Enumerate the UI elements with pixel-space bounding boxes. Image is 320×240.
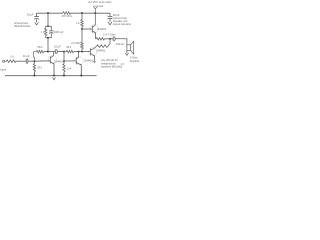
wire base node F jog up to R5 <box>34 52 37 62</box>
wire rail corner down to C3 <box>35 13 38 17</box>
label note use 300 uF line 2 <box>101 61 116 65</box>
wire node H to R6 <box>64 50 66 53</box>
wire node H down to node J <box>62 52 65 61</box>
node A junction dot on rail <box>47 12 49 14</box>
resistor R9 2.2 Mohm feedback <box>81 42 84 48</box>
label Input <box>0 67 6 71</box>
resistor R10 2.4-7 Ohm emitter <box>96 38 104 41</box>
wire right branch top of C4 <box>48 26 51 31</box>
wire C5 to speaker <box>115 39 127 45</box>
transistor Q4 emitter lead with arrow <box>90 53 94 56</box>
label R10 value 2.4-7 Ohm <box>103 32 116 36</box>
label C6 plus polarity <box>107 15 109 17</box>
transistor Q3 collector lead <box>76 52 78 59</box>
label R7 value 10 k <box>66 66 72 70</box>
resistor R4 33 k base to ground <box>33 63 35 71</box>
transistor Q1 emitter lead with arrow <box>50 62 54 64</box>
label R9 value 2.2 Mohm <box>71 41 79 45</box>
node J junction dot <box>63 60 65 62</box>
label C4 value 1000 uF <box>54 30 64 34</box>
capacitor C1 10 uF input coupling <box>26 59 28 64</box>
label note use 300 uF line 3 <box>101 65 122 69</box>
node Q ground dot Q1 emitter <box>53 75 55 77</box>
transistor Q2 base bar <box>91 26 94 33</box>
node L junction dot <box>81 51 83 53</box>
input terminal open circle <box>3 60 5 62</box>
resistor R1 470 Ohm in top rail <box>63 12 71 15</box>
wire Q2 emitter down to R10 <box>94 33 97 39</box>
label C2 value 10 uF <box>54 44 61 48</box>
wire node F to Q1 base <box>34 59 50 63</box>
wire Q1 emitter down to ground rail <box>52 64 55 76</box>
node P ground dot R4 <box>33 75 35 77</box>
label note ground loop line 1 <box>14 21 29 25</box>
wire node L to Q4 base <box>82 50 90 53</box>
wire left branch bottom of R2 <box>46 36 48 38</box>
node C junction dot on rail at supply <box>94 12 96 14</box>
label note ground loop line 2 <box>14 24 31 28</box>
transistor Q2 2N4401 circle <box>90 25 99 34</box>
label C3 value 10 uF <box>27 12 34 16</box>
resistor R2 1 k vertical <box>45 28 47 35</box>
ground arrow at Q4 emitter <box>93 61 95 63</box>
ground arrow below speaker <box>125 53 128 55</box>
label R2 value 1 k <box>41 30 45 34</box>
resistor R5 68 k feedback <box>36 50 43 53</box>
wire Q4 emitter stub down <box>93 56 96 61</box>
wire right branch bottom of C4 <box>48 34 51 38</box>
wire C3 bottom to ground <box>35 19 38 22</box>
wire ground bottom rail <box>5 74 97 77</box>
label C6 value 48 uF <box>113 13 120 17</box>
ground arrow below C3 <box>35 22 39 25</box>
label R4 value 33 k <box>37 66 43 70</box>
label C1 value 10 uF <box>23 54 30 58</box>
node N output junction dot <box>109 38 111 40</box>
node D junction dot top of RC pair <box>47 25 49 27</box>
speaker LS1 cone <box>131 41 134 54</box>
transistor Q3 base bar <box>75 57 78 64</box>
label Q1 2N4401 <box>54 60 63 64</box>
label Q2 2N4401 <box>97 27 107 31</box>
node F base node dot of Q1 <box>33 60 35 62</box>
node H junction dot <box>63 51 65 53</box>
transistor Q4 base bar <box>89 48 92 55</box>
wire R8 to node M <box>80 27 83 29</box>
capacitor C5 220 uF output coupling <box>113 37 115 42</box>
wire input to R3 <box>5 60 7 63</box>
wire V+ top rail <box>37 11 110 14</box>
label speaker line 1 <box>130 56 139 60</box>
resistor R3 1 k series input <box>6 60 15 63</box>
speaker LS1 driver box <box>127 45 131 51</box>
label R6 value 33 k <box>66 45 72 49</box>
label C5 plus polarity <box>111 36 113 38</box>
wire node K to node L <box>79 50 82 53</box>
label speaker line 2 <box>130 59 140 63</box>
wire R5 to node G <box>44 50 48 53</box>
wire C2 to node H <box>57 50 64 53</box>
wire R10 to output node N <box>104 37 110 40</box>
transistor Q1 2N4401 circle <box>48 55 57 64</box>
label supply 9-Volt line 2 <box>94 4 104 8</box>
wire node M down to R9 <box>80 29 83 42</box>
power +12V supply arrow <box>93 6 97 13</box>
resistor R11 in Q4 collector <box>97 45 108 48</box>
node K collector node dot of Q3 <box>78 51 80 53</box>
transistor Q4 2N4401 circle <box>89 48 97 56</box>
transistor Q1 collector lead <box>50 52 53 58</box>
wire rail corner down to C6 <box>108 13 111 16</box>
wire R7 bottom to ground rail <box>62 61 65 75</box>
wire R11 up to output node N <box>108 39 110 46</box>
capacitor C4 1000 uF vertical <box>49 31 53 34</box>
node R ground dot R7 <box>63 75 65 77</box>
wire C1 to base node F <box>28 60 34 63</box>
capacitor C6 48 uF decoupling <box>108 16 113 19</box>
ground arrow below rail <box>53 77 56 80</box>
label R3 value 1 k <box>10 55 14 59</box>
label Q3 2N4401 <box>84 59 94 63</box>
resistor R6 33 k in signal line <box>66 50 73 53</box>
wire Q2 emitter corner to R10 <box>94 37 98 40</box>
wire speaker return down <box>125 51 128 53</box>
capacitor C2 10 uF interstage coupling <box>55 49 57 54</box>
wire node E down to collector node <box>46 38 49 52</box>
node S ground dot Q3 emitter <box>80 75 82 77</box>
resistor R7 10 k to ground <box>63 64 65 72</box>
transistor Q3 emitter lead with arrow <box>76 63 81 65</box>
wire node B down to R8 <box>80 13 83 20</box>
node B junction dot on rail <box>81 12 83 14</box>
wire node N to C5 <box>110 37 113 40</box>
label C6 note line 2 <box>113 19 128 23</box>
capacitor C3 10 uF rail decoupling <box>34 17 39 20</box>
label C5 value 220 uF <box>116 42 125 46</box>
ground arrow below C6 <box>108 22 112 25</box>
wire R3 to C1 <box>16 60 26 63</box>
label R5 value 68 k <box>38 45 44 49</box>
wire Q3 emitter down to ground rail <box>80 65 83 76</box>
label C3 plus polarity <box>35 14 37 16</box>
resistor R8 1 k from rail <box>81 20 84 27</box>
wire node G to C2 <box>48 50 55 53</box>
label C6 note line 1 <box>113 16 128 20</box>
label R8 value 1 k <box>76 21 80 25</box>
wire left branch top of R2 <box>46 26 48 28</box>
wire C6 bottom to ground <box>108 19 111 22</box>
wire node A down to RC pair <box>46 13 49 26</box>
label C6 note line 3 <box>113 22 132 26</box>
transistor Q1 base bar <box>49 56 52 63</box>
wire stub near speaker text <box>121 63 125 65</box>
node E junction dot bottom of RC pair <box>47 37 49 39</box>
transistor Q2 collector lead to rail <box>92 13 95 27</box>
label Q4 2N4401 <box>96 49 105 53</box>
transistor Q2 emitter lead with arrow <box>92 31 95 33</box>
label supply +12 VDC line 1 <box>88 0 112 4</box>
wire node M to Q2 base <box>82 27 92 30</box>
transistor Q3 2N4401 circle <box>75 57 83 65</box>
wire R4 bottom to ground rail <box>33 61 36 75</box>
node G collector node dot of Q1 <box>47 51 49 53</box>
label R1 value 470 Ohm <box>61 14 73 18</box>
wire node J to Q3 base <box>64 59 76 62</box>
transistor Q4 collector lead <box>90 46 96 50</box>
node M junction dot Q2 base node <box>81 28 83 30</box>
wire R6 to node K <box>74 50 79 53</box>
label note use 300 uF line 1 <box>101 58 118 62</box>
wire R9 to node L <box>80 49 83 52</box>
